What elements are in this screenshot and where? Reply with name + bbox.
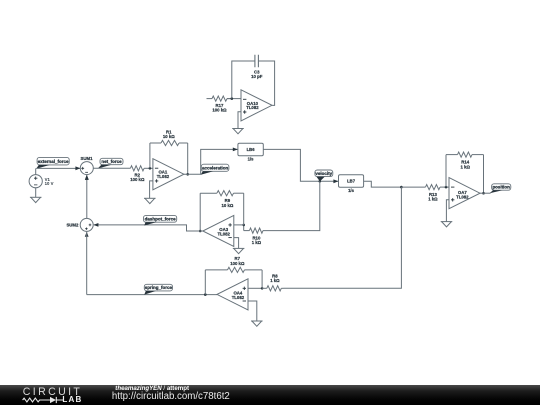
- node label spring_force: [144, 284, 172, 294]
- node junction LB7 output: [400, 186, 403, 189]
- ground below V1: [30, 197, 42, 202]
- svg-text:position: position: [492, 185, 510, 190]
- CircuitLab logo wordmark: [23, 386, 82, 398]
- svg-text:1 kΩ: 1 kΩ: [460, 164, 470, 169]
- arrowhead into SUM2 right: [93, 223, 98, 227]
- SUM1 minus sign: [85, 171, 88, 173]
- svg-text:1 kΩ: 1 kΩ: [252, 240, 262, 245]
- SUM1 plus sign: [81, 167, 84, 170]
- wire OA3 output to SUM2: [94, 225, 203, 231]
- wire OA10 + input to ground: [238, 112, 241, 129]
- wire R1 feedback right vertical: [187, 143, 189, 174]
- attribution title: [115, 385, 189, 392]
- attribution url: [112, 391, 230, 402]
- svg-text:TL082: TL082: [217, 232, 230, 237]
- capacitor C3: [251, 55, 263, 79]
- ground below OA3: [233, 248, 245, 253]
- op-amp OA4 TL082: [217, 279, 248, 310]
- svg-text:TL082: TL082: [456, 194, 469, 199]
- CircuitLab logo resistor-diode glyph: [22, 396, 68, 404]
- wire OA3 + input lead: [234, 224, 244, 226]
- wire OA1 output to LB6: [184, 149, 238, 174]
- wire external_force node to SUM1: [36, 167, 80, 169]
- wire R17 to OA10 inverting input: [227, 98, 241, 100]
- node label position: [490, 184, 511, 193]
- resistor R1 10 kOhm: [150, 129, 188, 145]
- svg-text:net_force: net_force: [101, 159, 122, 164]
- wire velocity node down to R10: [263, 181, 320, 230]
- wire R7 feedback left vertical: [204, 270, 206, 295]
- arrowhead into SUM1 bottom: [85, 175, 89, 180]
- wire R9 feedback right vertical: [243, 193, 245, 225]
- summing block SUM1: [80, 162, 93, 175]
- resistor R7 100 kOhm: [205, 256, 262, 272]
- arrowhead into LB7: [333, 179, 338, 183]
- svg-text:10 kΩ: 10 kΩ: [163, 134, 175, 139]
- node junction OA7 output: [482, 192, 485, 195]
- wire OA7 output to position label: [480, 192, 491, 194]
- node junction OA1 output: [186, 173, 189, 176]
- node junction R14/R13 at OA7 inverting input: [445, 186, 448, 189]
- node junction R7 left on spring wire: [204, 293, 207, 296]
- wire R1 feedback left vertical: [149, 143, 151, 168]
- node junction OA3 + input: [242, 224, 245, 227]
- wire R17 input stub: [207, 98, 213, 100]
- node junction R2/R1 at OA1 inverting input: [149, 167, 152, 170]
- wire LB6 output to LB7: [263, 149, 338, 181]
- svg-text:10 pF: 10 pF: [251, 74, 263, 79]
- wire SUM2 bottom down to spring wire: [86, 232, 88, 295]
- SUM2 plus sign bottom: [85, 228, 87, 230]
- wire R14 feedback right vertical: [483, 155, 485, 194]
- ground below OA7: [441, 222, 453, 227]
- wire C3 feedback left: [232, 61, 255, 99]
- svg-text:TL082: TL082: [157, 174, 170, 179]
- arrowhead into LB6: [233, 148, 238, 152]
- node junction OA3 output: [199, 230, 202, 233]
- node label net_force: [98, 158, 123, 168]
- node junction R17/C3: [231, 97, 234, 100]
- node label acceleration: [201, 164, 229, 175]
- svg-text:TL082: TL082: [232, 295, 245, 300]
- node junction velocity: [319, 180, 322, 183]
- svg-text:LB7: LB7: [347, 179, 356, 184]
- resistor R13 1 kOhm: [401, 185, 449, 202]
- resistor R2 100 kOhm: [130, 166, 153, 182]
- wire SUM2 output up to SUM1: [86, 175, 88, 218]
- wire R9 feedback left vertical: [199, 193, 201, 231]
- op-amp OA10 TL082: [241, 90, 272, 121]
- wire C3 feedback right: [258, 61, 274, 105]
- summing block SUM2: [80, 218, 93, 231]
- svg-text:spring_force: spring_force: [145, 285, 173, 290]
- wire SUM1 output to R2: [93, 167, 130, 169]
- svg-text:dashpot_force: dashpot_force: [145, 216, 177, 221]
- svg-text:1/s: 1/s: [348, 188, 354, 193]
- ground below OA10: [232, 129, 244, 134]
- svg-text:TL082: TL082: [246, 105, 259, 110]
- svg-text:1/s: 1/s: [248, 156, 254, 161]
- node junction OA4 + input: [261, 287, 264, 290]
- svg-text:100 kΩ: 100 kΩ: [230, 261, 245, 266]
- SUM1 name text: [81, 156, 94, 161]
- arrowhead into SUM2 bottom: [85, 232, 89, 237]
- node label dashpot_force: [144, 215, 177, 225]
- wire R8 to position node riser: [284, 187, 402, 288]
- wire R14 feedback left vertical: [445, 155, 447, 188]
- resistor R9 10 kOhm: [200, 191, 244, 208]
- wire OA4 - input to ground: [248, 301, 257, 321]
- resistor R8 1 kOhm: [262, 273, 283, 291]
- wire spring_force horizontal: [87, 294, 218, 296]
- resistor R14 1 kOhm: [446, 152, 484, 169]
- svg-text:SUM2: SUM2: [66, 223, 79, 228]
- op-amp OA3 TL082: [203, 215, 234, 246]
- wire OA7 + input to ground: [446, 200, 449, 222]
- integrator block LB7: [339, 175, 364, 193]
- arrowhead into SUM1 left: [75, 166, 80, 170]
- svg-text:SUM1: SUM1: [81, 156, 94, 161]
- svg-text:external_force: external_force: [38, 159, 69, 164]
- svg-text:1 kΩ: 1 kΩ: [428, 197, 438, 202]
- arrowhead SUM2 to SUM1 mid: [85, 175, 89, 180]
- voltage source V1 10 V: [29, 168, 53, 197]
- node label external_force: [36, 157, 69, 168]
- svg-text:10 V: 10 V: [45, 181, 54, 186]
- wire OA3 - input to ground: [234, 238, 239, 249]
- svg-text:10 kΩ: 10 kΩ: [221, 203, 233, 208]
- svg-text:acceleration: acceleration: [202, 165, 229, 170]
- wire OA1 + input to ground: [150, 181, 153, 198]
- svg-text:100 kΩ: 100 kΩ: [130, 177, 145, 182]
- svg-text:1 kΩ: 1 kΩ: [270, 278, 280, 283]
- wire R10 to OA3 + junction: [243, 225, 245, 231]
- ground below OA1: [144, 198, 156, 203]
- SUM2 name text: [66, 223, 79, 228]
- wire LB7 output step: [364, 181, 402, 187]
- ground below OA4: [251, 321, 263, 326]
- op-amp OA1 TL082: [153, 159, 184, 190]
- node label velocity: [315, 170, 333, 181]
- op-amp OA7 TL082: [449, 178, 480, 209]
- integrator block LB6: [238, 143, 263, 161]
- resistor R17 100 kOhm: [212, 96, 232, 113]
- resistor R10 1 kOhm: [244, 228, 263, 245]
- svg-text:100 kΩ: 100 kΩ: [212, 108, 227, 113]
- wire R7 feedback right vertical: [261, 270, 263, 288]
- svg-text:velocity: velocity: [315, 171, 332, 176]
- SUM2 plus sign right: [89, 224, 92, 227]
- svg-text:LB6: LB6: [247, 147, 256, 152]
- wire OA4 + input lead: [248, 287, 262, 289]
